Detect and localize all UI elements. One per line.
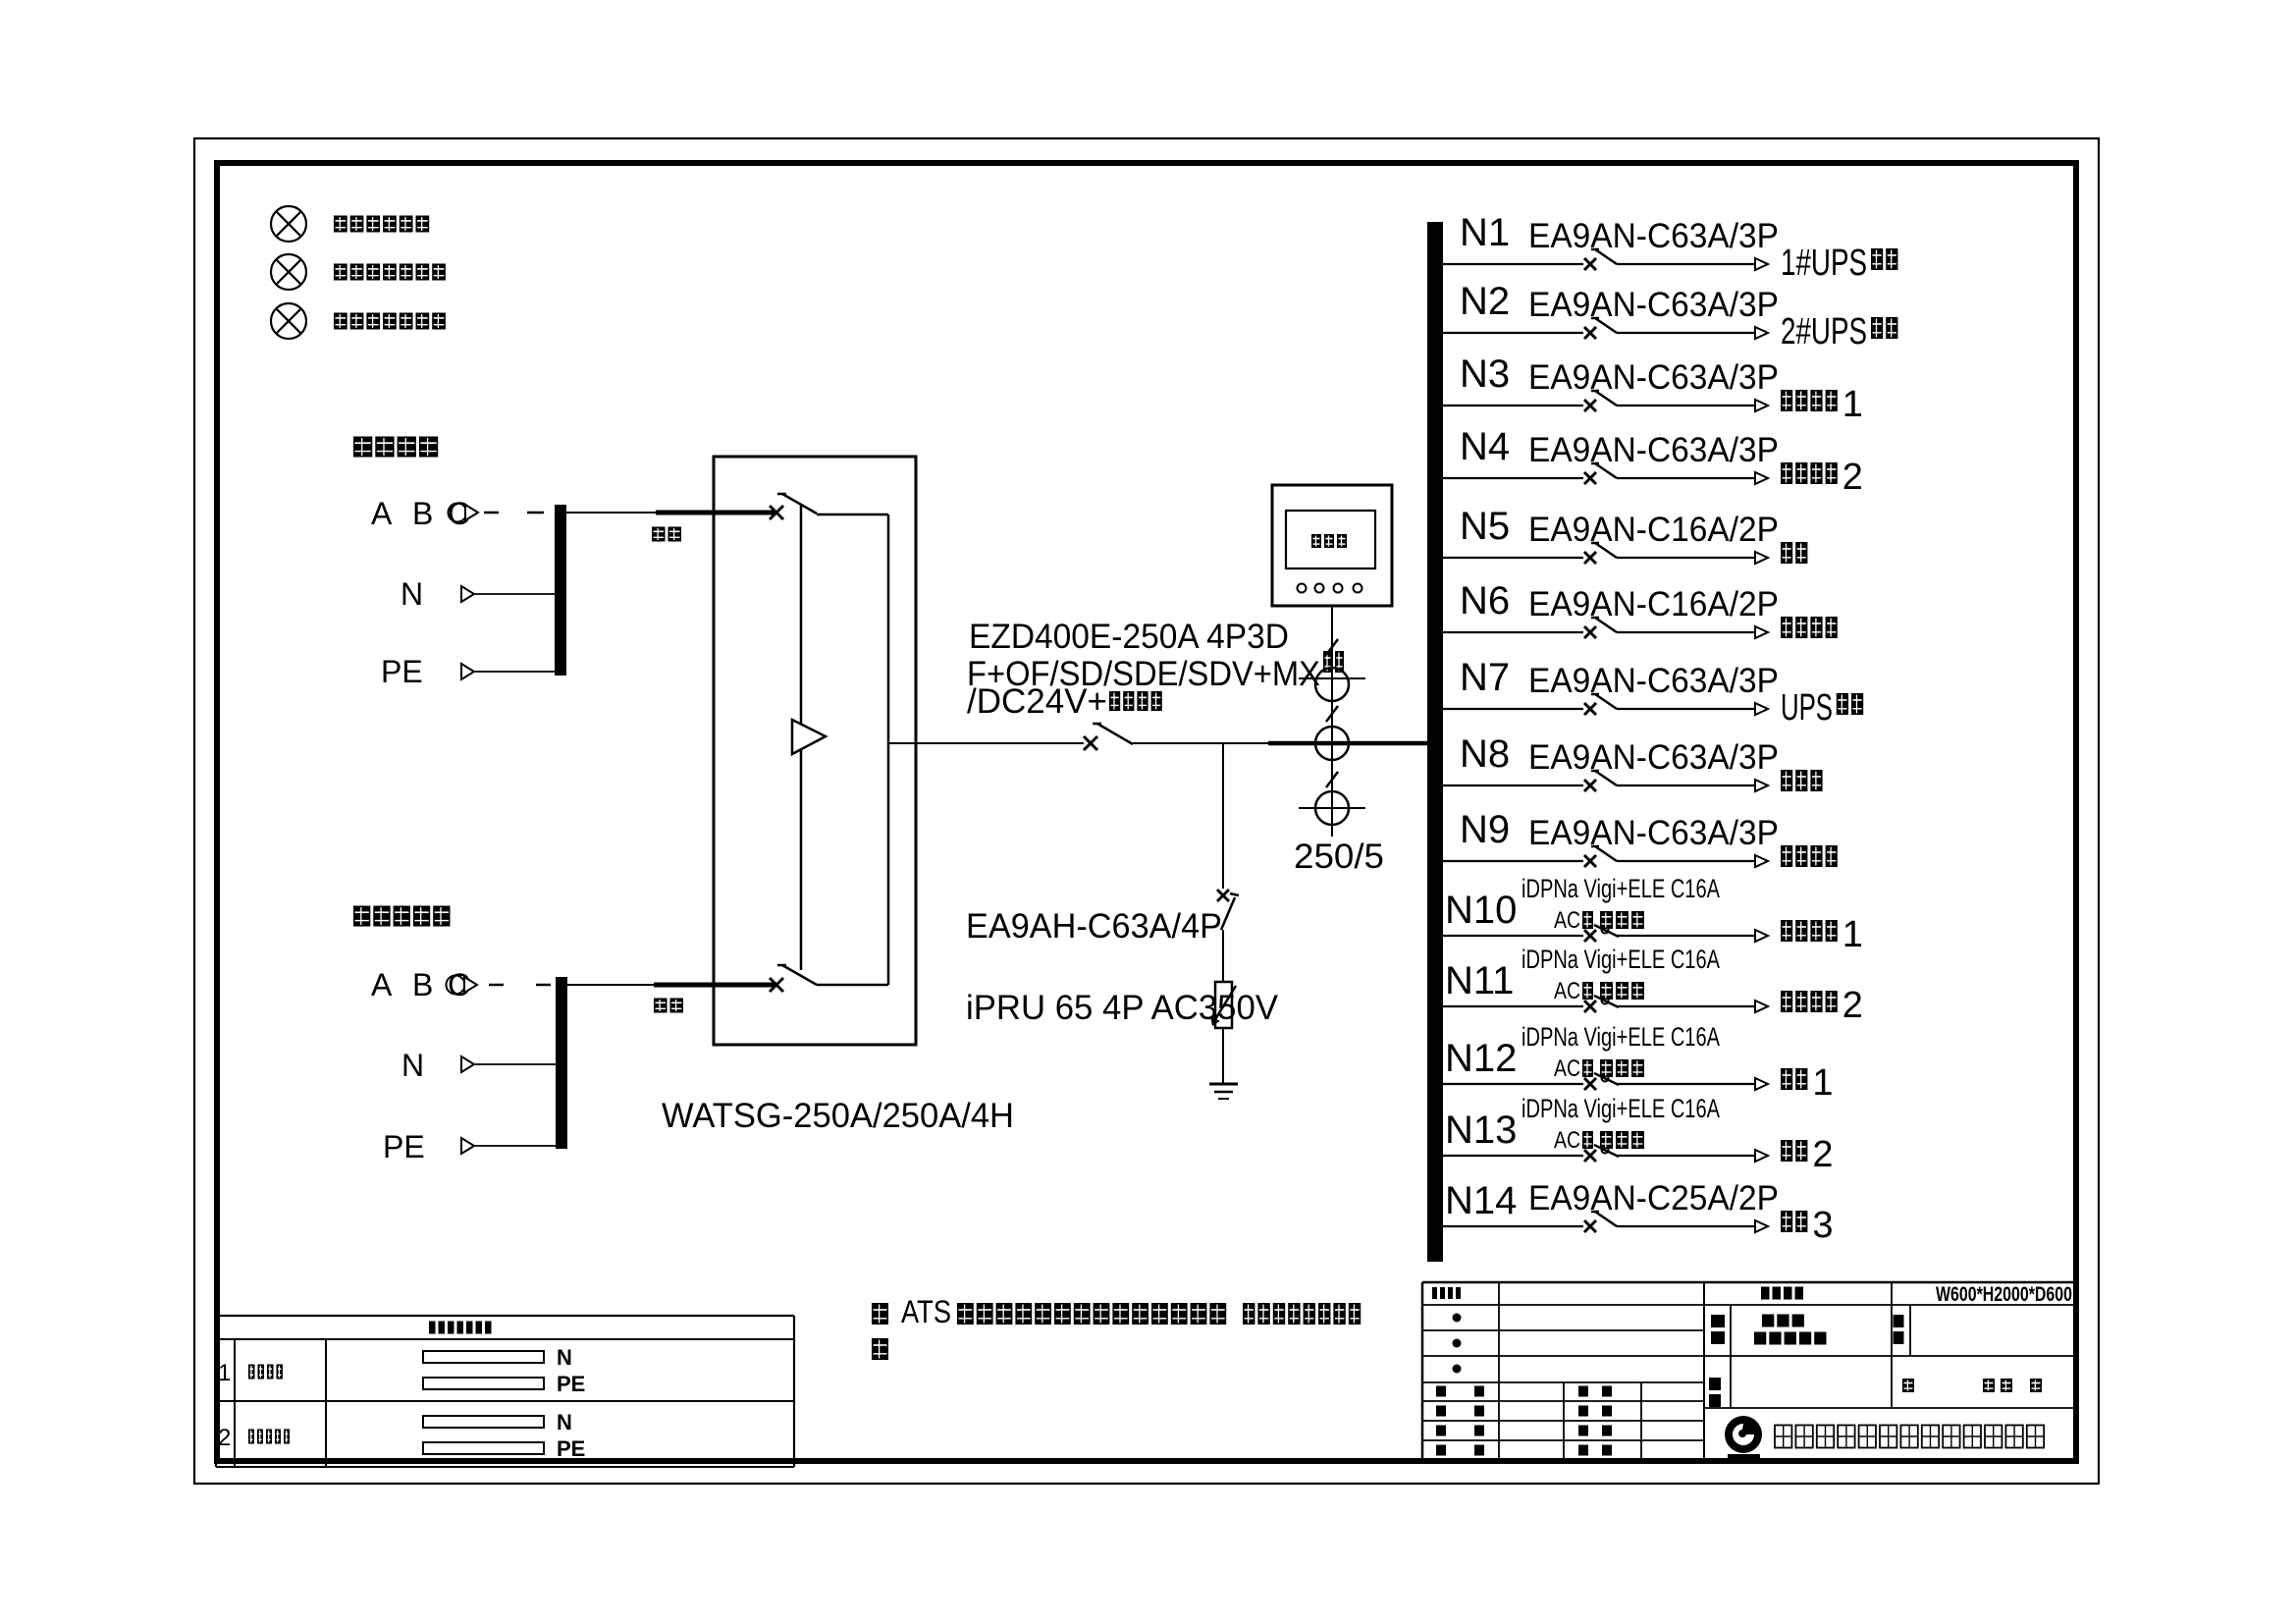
label title row 4 bbox=[1436, 1445, 1612, 1456]
svg-text:AC: AC bbox=[1554, 907, 1580, 934]
breaker N4 branch bbox=[1443, 463, 1768, 484]
label EA9AH-C63A/4P bbox=[966, 907, 1222, 946]
svg-text:2#UPS: 2#UPS bbox=[1781, 311, 1867, 352]
svg-text:N11: N11 bbox=[1445, 959, 1514, 1002]
svg-text:250/5: 250/5 bbox=[1294, 838, 1384, 876]
wire breaker to junction bbox=[1133, 742, 1268, 744]
svg-text:N: N bbox=[401, 1048, 424, 1083]
label drawing size header bbox=[1761, 1287, 1803, 1300]
node A B C generator phase terminals bbox=[371, 967, 477, 1002]
svg-text:N7: N7 bbox=[1460, 656, 1510, 699]
svg-text:N4: N4 bbox=[1460, 425, 1510, 468]
svg-text:EA9AN-C16A/2P: EA9AN-C16A/2P bbox=[1528, 585, 1779, 623]
node mains incoming label 市电接入 bbox=[353, 437, 438, 458]
svg-text:AC: AC bbox=[1554, 1127, 1580, 1154]
ATS Q1 WATSG-250A/250A/4H enclosure bbox=[714, 457, 916, 1045]
svg-text:2: 2 bbox=[1842, 457, 1863, 498]
svg-text:iDPNa Vigi+ELE C16A: iDPNa Vigi+ELE C16A bbox=[1522, 1094, 1720, 1123]
node load label N4 bbox=[1781, 457, 1863, 498]
indicator lamp HL1 mains supply bbox=[271, 206, 429, 242]
svg-text:1: 1 bbox=[1842, 384, 1863, 425]
logo company bbox=[1725, 1416, 1762, 1458]
meter PJ1 kWh meter box bbox=[1272, 485, 1392, 606]
svg-text:N12: N12 bbox=[1445, 1037, 1517, 1080]
label N14 circuit designation bbox=[1445, 1179, 1779, 1222]
label N4 circuit designation bbox=[1460, 425, 1779, 469]
svg-text:iDPNa Vigi+ELE C16A: iDPNa Vigi+ELE C16A bbox=[1522, 874, 1720, 903]
label N6 circuit designation bbox=[1460, 579, 1779, 623]
label iPRU 65 4P AC350V bbox=[966, 989, 1279, 1027]
wire generator ABC dashed bbox=[489, 984, 551, 987]
svg-text:AC: AC bbox=[1554, 978, 1580, 1004]
ATS actuator triangle bbox=[792, 720, 826, 754]
svg-text:N13: N13 bbox=[1445, 1109, 1517, 1152]
svg-text:N8: N8 bbox=[1460, 732, 1510, 776]
svg-text:PE: PE bbox=[557, 1436, 585, 1461]
node N generator terminal bbox=[401, 1048, 556, 1083]
breaker N2 branch bbox=[1443, 318, 1768, 339]
wire hash marks bbox=[1326, 639, 1338, 787]
label title row 1 bbox=[1436, 1386, 1612, 1397]
node PE generator terminal bbox=[383, 1129, 556, 1164]
breaker N10 branch bbox=[1443, 925, 1768, 942]
busbar generator input bbox=[556, 977, 567, 1149]
node revision dots bbox=[1453, 1314, 1462, 1374]
node generator incoming label 发电机接入 bbox=[353, 906, 451, 927]
svg-text:A: A bbox=[371, 967, 393, 1002]
svg-text:N6: N6 bbox=[1460, 579, 1510, 622]
svg-text:EA9AN-C63A/3P: EA9AN-C63A/3P bbox=[1528, 217, 1779, 255]
label title row 3 bbox=[1436, 1426, 1612, 1436]
label F+OF/SD/SDE/SDV+MX shunt bbox=[967, 651, 1344, 693]
ATS mechanism frame bbox=[801, 504, 888, 985]
node load label N5 bbox=[1781, 542, 1807, 564]
wire mains ABC dashed bbox=[484, 512, 544, 514]
label EZD400E-250A 4P3D bbox=[969, 618, 1289, 656]
svg-text:N9: N9 bbox=[1460, 808, 1510, 851]
svg-text:EA9AN-C63A/3P: EA9AN-C63A/3P bbox=[1528, 358, 1779, 397]
CT 250/5 transformer 3 bbox=[1299, 791, 1365, 825]
SPD F1 iPRU 65 surge arrester bbox=[1210, 982, 1236, 1028]
breaker N1 branch bbox=[1443, 249, 1768, 270]
breaker N11 branch bbox=[1443, 996, 1768, 1012]
label N5 circuit designation bbox=[1460, 505, 1779, 549]
wire ATS output bbox=[888, 742, 1084, 744]
svg-text:2: 2 bbox=[1842, 985, 1863, 1026]
svg-text:iDPNa Vigi+ELE C16A: iDPNa Vigi+ELE C16A bbox=[1522, 945, 1720, 974]
node load label N10 bbox=[1781, 914, 1863, 955]
label N7 circuit designation bbox=[1460, 656, 1779, 700]
CT 250/5 transformer 1 bbox=[1299, 668, 1365, 701]
label sheet x of y bbox=[1902, 1379, 2042, 1392]
label company name bbox=[1775, 1426, 2044, 1448]
svg-text:EZD400E-250A 4P3D: EZD400E-250A 4P3D bbox=[969, 618, 1289, 656]
indicator lamp HL2 generator supply bbox=[271, 254, 446, 290]
note line 2 bbox=[872, 1338, 888, 1360]
svg-text:WATSG-250A/250A/4H: WATSG-250A/250A/4H bbox=[662, 1097, 1014, 1135]
svg-text:PE: PE bbox=[383, 1129, 425, 1164]
label N8 circuit designation bbox=[1460, 732, 1779, 777]
svg-text:UPS: UPS bbox=[1781, 687, 1833, 729]
svg-text:1: 1 bbox=[1812, 1062, 1833, 1104]
svg-text:B: B bbox=[412, 967, 433, 1002]
svg-text:N1: N1 bbox=[1460, 211, 1510, 254]
svg-text:3: 3 bbox=[1812, 1205, 1833, 1246]
breaker N7 branch bbox=[1443, 694, 1768, 715]
wire mains to ATS normal feed 常用 bbox=[566, 513, 774, 542]
label N3 circuit designation bbox=[1460, 352, 1779, 397]
label N1 circuit designation bbox=[1460, 211, 1779, 255]
switch SPD isolator EA9AH-C63A/4P bbox=[1217, 890, 1239, 930]
svg-text:N3: N3 bbox=[1460, 352, 1510, 396]
switch ATS normal-side contact bbox=[770, 494, 817, 519]
node load label N1 bbox=[1781, 243, 1897, 284]
node load label N13 bbox=[1781, 1134, 1834, 1175]
table title block bbox=[1422, 1282, 2076, 1462]
CT 250/5 transformer 2 bbox=[1315, 727, 1349, 760]
svg-text:N14: N14 bbox=[1445, 1179, 1517, 1222]
wire SPD to ground bbox=[1222, 1028, 1224, 1083]
svg-text:EA9AN-C25A/2P: EA9AN-C25A/2P bbox=[1528, 1179, 1779, 1217]
svg-text:2: 2 bbox=[1812, 1134, 1833, 1175]
svg-text:A: A bbox=[371, 496, 393, 531]
label N13 circuit designation bbox=[1445, 1094, 1720, 1154]
label name cell 名称 bbox=[1711, 1315, 1827, 1345]
node load label N2 bbox=[1781, 311, 1897, 352]
breaker N8 branch bbox=[1443, 771, 1768, 791]
label N2 circuit designation bbox=[1460, 280, 1779, 324]
node load label N6 bbox=[1781, 617, 1838, 638]
label remark cell 备注 bbox=[1894, 1315, 1904, 1344]
wire meter to CT chain bbox=[1331, 606, 1333, 837]
wire junction to busbar through CT bbox=[1268, 741, 1427, 746]
breaker N13 branch bbox=[1443, 1145, 1768, 1162]
svg-text:EA9AN-C63A/3P: EA9AN-C63A/3P bbox=[1528, 814, 1779, 852]
label drawing number cell 图号 bbox=[1709, 1378, 1721, 1407]
breaker N14 branch bbox=[1443, 1212, 1768, 1232]
node terminal row 1 mains bbox=[218, 1345, 585, 1396]
svg-text:EA9AN-C16A/2P: EA9AN-C16A/2P bbox=[1528, 511, 1779, 549]
node N mains terminal bbox=[400, 576, 556, 612]
label N11 circuit designation bbox=[1445, 945, 1720, 1004]
svg-text:PE: PE bbox=[557, 1372, 585, 1396]
svg-text:EA9AN-C63A/3P: EA9AN-C63A/3P bbox=[1528, 431, 1779, 469]
svg-text:N: N bbox=[400, 576, 423, 612]
breaker QF0 EZD400E-250A main bbox=[1084, 724, 1133, 750]
breaker N12 branch bbox=[1443, 1073, 1768, 1090]
svg-text:EA9AN-C63A/3P: EA9AN-C63A/3P bbox=[1528, 286, 1779, 324]
svg-text:N2: N2 bbox=[1460, 280, 1510, 323]
svg-text:N: N bbox=[557, 1410, 572, 1434]
node PE mains terminal bbox=[381, 654, 556, 689]
node load label N11 bbox=[1781, 985, 1863, 1026]
busbar distribution main bbox=[1427, 222, 1443, 1262]
svg-text:1: 1 bbox=[218, 1360, 231, 1386]
switch ATS standby-side contact bbox=[770, 965, 817, 992]
wire generator to ATS standby feed 备用 bbox=[567, 985, 774, 1013]
svg-text:2: 2 bbox=[218, 1425, 231, 1451]
label title row 2 bbox=[1436, 1406, 1612, 1417]
label N9 circuit designation bbox=[1460, 808, 1779, 852]
node terminal row 2 generator bbox=[218, 1410, 585, 1461]
note fire-protection ATS signal line 1 bbox=[872, 1294, 1361, 1329]
node load label N3 bbox=[1781, 384, 1863, 425]
breaker N5 branch bbox=[1443, 543, 1768, 564]
node A B C mains phase terminals bbox=[371, 496, 478, 531]
busbar mains input bbox=[555, 505, 566, 676]
svg-text:N10: N10 bbox=[1445, 889, 1517, 932]
node load label N12 bbox=[1781, 1062, 1834, 1104]
svg-text:AC: AC bbox=[1554, 1055, 1580, 1082]
label title block revision header bbox=[1432, 1287, 1461, 1299]
node load label N7 bbox=[1781, 687, 1863, 729]
label W600*H2000*D600 bbox=[1936, 1283, 2072, 1306]
node load label N14 bbox=[1781, 1205, 1834, 1246]
svg-text:iPRU 65 4P AC350V: iPRU 65 4P AC350V bbox=[966, 989, 1279, 1027]
node load label N8 bbox=[1781, 770, 1823, 791]
indicator lamp HL3 dual-supply closed bbox=[271, 303, 446, 339]
breaker N9 branch bbox=[1443, 846, 1768, 867]
svg-text:PE: PE bbox=[381, 654, 423, 689]
svg-text:iDPNa Vigi+ELE C16A: iDPNa Vigi+ELE C16A bbox=[1522, 1022, 1720, 1052]
svg-text:W600*H2000*D600: W600*H2000*D600 bbox=[1936, 1283, 2072, 1306]
breaker N6 branch bbox=[1443, 618, 1768, 638]
wire isolator to SPD bbox=[1222, 930, 1224, 982]
svg-text:N: N bbox=[557, 1345, 572, 1370]
ground bbox=[1209, 1084, 1238, 1099]
label /DC24V+ phase barrier bbox=[967, 682, 1162, 721]
svg-text:B: B bbox=[412, 496, 433, 531]
label N10 circuit designation bbox=[1445, 874, 1720, 934]
table external terminal strip bbox=[216, 1316, 794, 1467]
label WATSG-250A/250A/4H bbox=[662, 1097, 1014, 1135]
svg-text:EA9AH-C63A/4P: EA9AH-C63A/4P bbox=[966, 907, 1222, 946]
label 250/5 bbox=[1294, 838, 1384, 876]
node load label N9 bbox=[1781, 845, 1838, 867]
svg-text:1: 1 bbox=[1842, 914, 1863, 955]
wire junction down to SPD isolator bbox=[1222, 743, 1224, 889]
svg-text:N5: N5 bbox=[1460, 505, 1510, 548]
svg-text:EA9AN-C63A/3P: EA9AN-C63A/3P bbox=[1528, 662, 1779, 700]
svg-text:/DC24V+: /DC24V+ bbox=[967, 682, 1107, 721]
breaker N3 branch bbox=[1443, 391, 1768, 411]
svg-text:ATS: ATS bbox=[901, 1294, 951, 1329]
label N12 circuit designation bbox=[1445, 1022, 1720, 1082]
svg-text:1#UPS: 1#UPS bbox=[1781, 243, 1867, 284]
svg-text:EA9AN-C63A/3P: EA9AN-C63A/3P bbox=[1528, 738, 1779, 777]
